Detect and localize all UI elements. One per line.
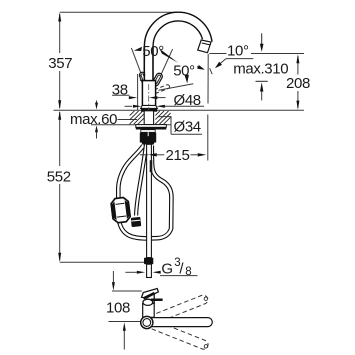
svg-text:8: 8 xyxy=(185,266,191,278)
svg-text:3: 3 xyxy=(174,257,180,269)
svg-text:Ø48: Ø48 xyxy=(174,92,201,109)
svg-text:208: 208 xyxy=(286,75,310,92)
svg-text:357: 357 xyxy=(48,55,72,72)
svg-text:Ø34: Ø34 xyxy=(174,119,201,136)
svg-text:215: 215 xyxy=(166,147,190,164)
svg-text:38: 38 xyxy=(112,81,128,98)
svg-text:G: G xyxy=(161,261,172,278)
svg-text:552: 552 xyxy=(47,169,71,186)
svg-text:10°: 10° xyxy=(227,43,249,60)
svg-text:50°: 50° xyxy=(142,43,164,60)
svg-text:108: 108 xyxy=(106,300,130,317)
svg-text:max.310: max.310 xyxy=(233,61,288,78)
svg-text:50°: 50° xyxy=(173,63,195,80)
svg-text:max.60: max.60 xyxy=(70,111,117,128)
